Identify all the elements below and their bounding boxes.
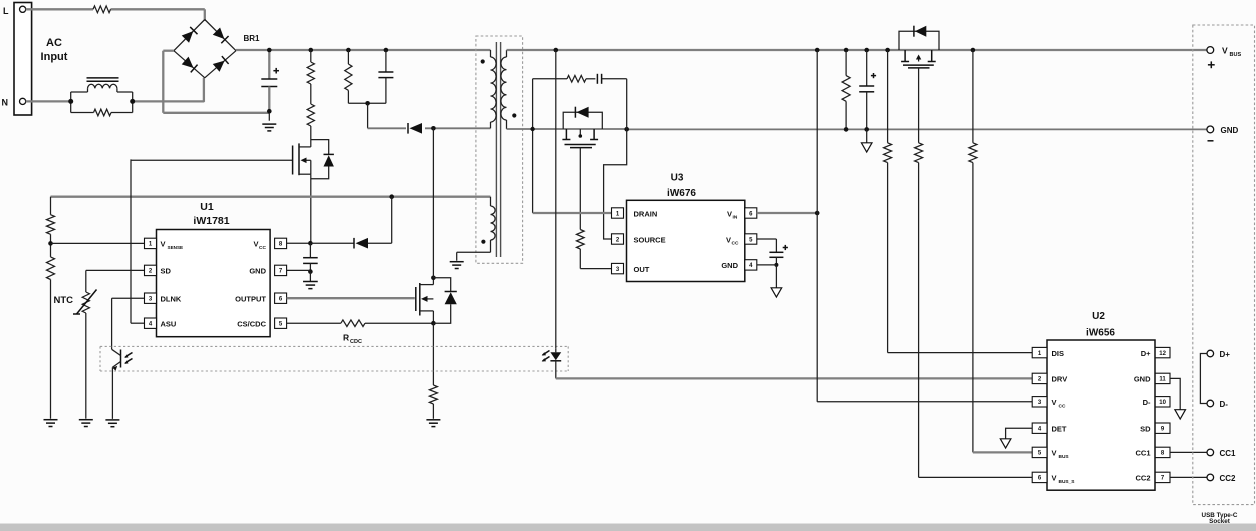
svg-text:CDC: CDC: [350, 339, 362, 345]
svg-text:U3: U3: [671, 173, 684, 184]
svg-text:AC: AC: [46, 37, 62, 49]
svg-text:GND: GND: [1134, 375, 1151, 384]
svg-text:D-: D-: [1143, 398, 1151, 407]
svg-text:IN: IN: [733, 215, 738, 221]
svg-text:DRAIN: DRAIN: [634, 209, 658, 218]
svg-text:12: 12: [1159, 351, 1166, 357]
svg-text:V: V: [161, 240, 166, 249]
svg-text:DLNK: DLNK: [161, 294, 182, 303]
svg-text:DET: DET: [1052, 424, 1067, 433]
svg-text:D-: D-: [1220, 400, 1229, 409]
svg-text:V: V: [1052, 474, 1057, 483]
svg-text:GND: GND: [1221, 126, 1239, 135]
svg-text:10: 10: [1159, 400, 1166, 406]
svg-text:V: V: [1052, 449, 1057, 458]
svg-text:NTC: NTC: [54, 295, 74, 306]
svg-text:V: V: [1222, 46, 1228, 56]
svg-text:SENSE: SENSE: [168, 245, 184, 250]
svg-text:CC: CC: [259, 245, 266, 251]
svg-text:OUT: OUT: [634, 265, 650, 274]
svg-text:BUS: BUS: [1230, 52, 1242, 58]
svg-text:V: V: [1052, 398, 1057, 407]
svg-text:CS/CDC: CS/CDC: [237, 319, 266, 328]
svg-text:D+: D+: [1141, 349, 1151, 358]
svg-text:R: R: [343, 333, 349, 343]
svg-text:DIS: DIS: [1052, 349, 1065, 358]
svg-text:V: V: [726, 235, 731, 244]
svg-text:CC1: CC1: [1135, 449, 1150, 458]
svg-text:GND: GND: [721, 261, 738, 270]
svg-text:V: V: [253, 240, 258, 249]
svg-text:CC2: CC2: [1135, 474, 1150, 483]
svg-text:BUS_S: BUS_S: [1059, 479, 1076, 485]
svg-text:U2: U2: [1092, 311, 1105, 322]
svg-text:U1: U1: [200, 201, 214, 213]
svg-text:L: L: [3, 6, 9, 16]
svg-text:OUTPUT: OUTPUT: [235, 294, 266, 303]
svg-text:SD: SD: [1140, 424, 1151, 433]
svg-text:V: V: [727, 209, 732, 218]
svg-text:DRV: DRV: [1052, 375, 1068, 384]
svg-text:CC: CC: [1059, 403, 1066, 409]
svg-text:iW656: iW656: [1086, 328, 1115, 339]
svg-text:N: N: [2, 98, 9, 108]
svg-text:D+: D+: [1220, 350, 1231, 359]
svg-text:Socket: Socket: [1209, 518, 1231, 525]
svg-text:CC2: CC2: [1220, 474, 1237, 483]
svg-text:BR1: BR1: [244, 34, 261, 43]
svg-text:BUS: BUS: [1059, 454, 1070, 460]
svg-text:Input: Input: [41, 51, 68, 63]
svg-text:iW1781: iW1781: [193, 215, 229, 227]
svg-text:SD: SD: [161, 267, 172, 276]
svg-text:SOURCE: SOURCE: [634, 235, 666, 244]
svg-text:11: 11: [1159, 377, 1166, 383]
svg-text:GND: GND: [249, 267, 266, 276]
svg-text:iW676: iW676: [667, 188, 696, 199]
svg-text:ASU: ASU: [161, 319, 177, 328]
svg-text:CC: CC: [732, 241, 739, 247]
svg-text:CC1: CC1: [1220, 449, 1237, 458]
